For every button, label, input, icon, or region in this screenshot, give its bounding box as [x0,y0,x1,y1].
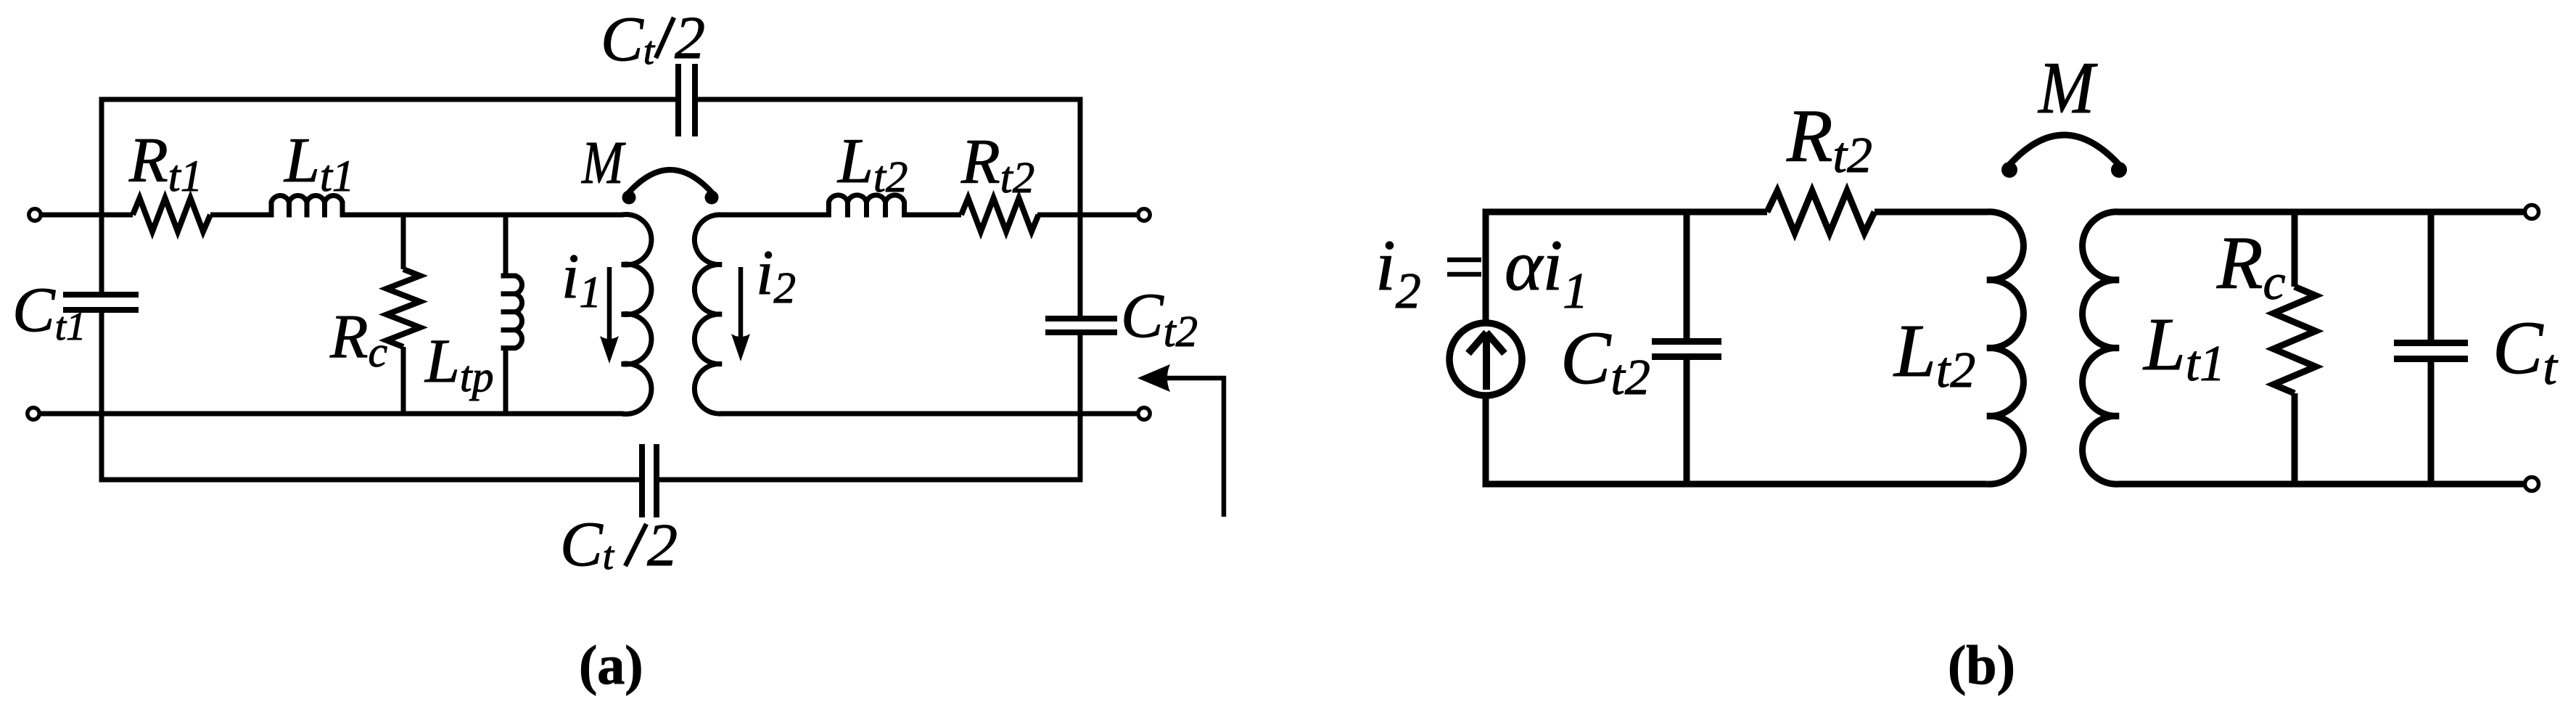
equals sign in i2=alpha*i1 (b) [1447,260,1481,274]
wire outer bottom-left (a) [102,313,639,480]
transformer winding Lt2 (b) [1987,212,2023,484]
svg-text:M: M [2037,47,2098,129]
wire outer top-left (a) [102,99,675,292]
wire lower-left (a) [39,411,623,417]
svg-text:2: 2 [675,4,705,72]
CIRCUIT B [1486,212,2524,484]
svg-text:Ct: Ct [601,4,656,75]
current arrow i1 (a) [607,267,612,343]
mutual coupling arc M (b) [2009,135,2119,165]
wire winding Lt1 to port bottom (b) [2118,481,2524,488]
svg-text:i2: i2 [1375,225,1421,319]
svg-text:Lt2: Lt2 [1893,309,1975,398]
wire Ct2 top lead (b) [1684,212,1690,338]
terminal port2- (a) [1138,408,1150,419]
terminal port2+ (a) [1138,209,1150,221]
CIRCUIT A [102,99,1080,480]
svg-text:(b): (b) [1948,635,2015,696]
capacitor Ct/2 top (a) plates [675,64,681,136]
terminal port+ (b) [2525,205,2539,219]
svg-text:Ct2: Ct2 [1121,281,1198,356]
capacitor Ct2 (b) plates [1652,338,1721,345]
value label M (b) [2037,47,2098,129]
inductor Lt1 (a) [271,196,342,202]
resistor Rc (a) [387,269,420,347]
svg-text:Ltp: Ltp [424,326,494,401]
svg-text:Rt1: Rt1 [128,126,202,201]
svg-text:Rc: Rc [2216,221,2286,311]
tuning pointer arrow to Ct2 (a) [1166,378,1224,517]
terminal port- (b) [2525,478,2539,491]
capacitor Ct1 (a) plates [63,292,139,298]
wire top-left loop (b) [1486,212,1767,325]
wire winding Lt1 to port top (b) [2118,209,2524,216]
terminal port1- (a) [28,408,39,419]
svg-text:i2: i2 [756,238,796,313]
transformer dot Lt2 (b) [2001,162,2017,178]
wire Rt2 to port2+ (a) [1037,213,1138,218]
transformer winding Lt1 (b) [2083,212,2119,484]
mutual coupling arc M (a) [629,170,712,192]
resistor Rt2 (a) [961,198,1039,231]
svg-text:Lt1: Lt1 [2142,303,2225,392]
terminal port1+ (a) [29,209,41,221]
wire lower-right (a) [720,411,1138,417]
resistor Rt2 (b) [1767,191,1875,233]
capacitor Ct2 (a) plates [1045,316,1117,321]
svg-text:Ct1: Ct1 [12,275,86,348]
wire Ct2 bottom lead (b) [1684,360,1690,484]
svg-text:2: 2 [647,512,678,579]
wire bottom-left loop (b) [1486,393,1987,484]
value label M (a) [581,129,626,197]
transformer dot secondary (a) [705,191,719,205]
wire Rc bottom lead (a) [401,347,406,414]
wire Rc top lead (b) [2292,212,2298,287]
wire Ltp top lead (a) [503,215,509,274]
svg-text:Ct2: Ct2 [1560,316,1650,406]
svg-text:Rt2: Rt2 [1786,94,1872,184]
wire Rt2 to winding Lt2 (b) [1875,209,1988,216]
transformer secondary winding i2 (a) [694,215,722,414]
inductor Ltp (a) [516,276,522,348]
wire outer bottom-right (a) [659,335,1080,480]
svg-text:αi1: αi1 [1505,225,1588,319]
wire Ct top lead (b) [2428,212,2435,340]
transformer dot primary (a) [622,191,636,205]
svg-text:i1: i1 [561,242,601,317]
svg-text:Ct: Ct [2493,306,2558,396]
wire Ct bottom lead (b) [2428,362,2435,484]
wire outer top-right (a) [698,99,1080,316]
svg-text:Rc: Rc [329,301,387,376]
transformer primary winding i1 (a) [622,214,651,414]
current source i2=alpha*i1 (b) [1449,323,1522,396]
wire Lt1 to winding (a) [344,213,623,218]
svg-text:(a): (a) [579,635,643,696]
wire Rc bottom lead (b) [2292,393,2298,484]
wire Rt1-Lt1 (a) [210,213,270,218]
svg-text:Rt2: Rt2 [960,127,1034,202]
current arrow i2 (a) [738,267,744,341]
wire Ltp bottom lead (a) [503,350,509,414]
svg-text:Ct: Ct [560,509,615,580]
resistor Rt1 (a) [133,198,210,231]
transformer dot Lt1 (b) [2111,162,2127,178]
capacitor Ct (b) plates [2394,340,2468,346]
resistor Rc (b) [2273,287,2316,393]
svg-text:M: M [581,129,626,197]
wire winding to Lt2 (a) [720,213,828,218]
wire Lt2-Rt2 (a) [905,213,961,218]
inductor Lt2 (a) [828,195,904,202]
wire Rc top lead (a) [401,215,406,269]
svg-text:Lt2: Lt2 [836,126,908,202]
svg-text:Lt1: Lt1 [283,126,354,201]
wire input top (a) [41,213,133,218]
capacitor Ct/2 bottom (a) plates [639,444,645,517]
